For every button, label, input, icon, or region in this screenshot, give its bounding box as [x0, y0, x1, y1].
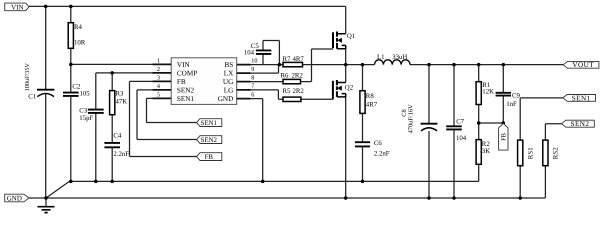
svg-text:BS: BS [225, 61, 234, 69]
svg-text:2R2: 2R2 [293, 88, 305, 95]
svg-text:47K: 47K [116, 98, 128, 105]
svg-text:3: 3 [157, 74, 160, 81]
svg-text:VIN: VIN [177, 61, 191, 69]
svg-text:LG: LG [224, 86, 234, 94]
svg-text:4R7: 4R7 [293, 56, 305, 63]
svg-text:15pF: 15pF [79, 115, 93, 122]
svg-text:C3: C3 [79, 108, 88, 115]
svg-text:9: 9 [251, 66, 254, 73]
svg-text:104: 104 [456, 135, 467, 142]
svg-text:SEN1: SEN1 [201, 120, 217, 127]
svg-text:8: 8 [251, 74, 254, 81]
svg-text:R2: R2 [482, 141, 491, 148]
svg-text:470uF/16V: 470uF/16V [407, 104, 414, 134]
svg-text:FB: FB [501, 133, 508, 141]
svg-text:2.2nF: 2.2nF [374, 151, 390, 158]
svg-text:Q2: Q2 [345, 85, 354, 92]
svg-text:RS1: RS1 [527, 147, 534, 159]
svg-text:C9: C9 [512, 92, 521, 99]
svg-text:1nF: 1nF [506, 101, 517, 108]
svg-text:L1: L1 [377, 54, 385, 61]
svg-text:R6: R6 [281, 72, 290, 79]
svg-text:LX: LX [224, 70, 234, 78]
svg-text:4R7: 4R7 [366, 101, 378, 108]
svg-text:2: 2 [157, 66, 160, 73]
svg-text:R7: R7 [283, 56, 292, 63]
svg-text:C2: C2 [72, 83, 81, 90]
svg-text:1: 1 [157, 57, 160, 64]
svg-text:33uH: 33uH [392, 54, 407, 61]
svg-text:7: 7 [251, 83, 254, 90]
svg-text:104: 104 [244, 50, 255, 57]
svg-text:2.2nF: 2.2nF [113, 151, 129, 158]
svg-text:105: 105 [80, 91, 91, 98]
svg-text:GND: GND [218, 95, 234, 103]
svg-text:C7: C7 [456, 118, 465, 125]
svg-text:6: 6 [251, 91, 254, 98]
svg-text:SEN2: SEN2 [177, 86, 195, 94]
svg-text:2R2: 2R2 [292, 72, 304, 79]
svg-text:RS2: RS2 [553, 147, 560, 159]
svg-text:SEN2: SEN2 [571, 120, 590, 128]
svg-text:C1: C1 [28, 93, 36, 100]
svg-text:C4: C4 [113, 133, 122, 140]
svg-text:SEN1: SEN1 [572, 94, 591, 102]
svg-text:10R: 10R [74, 39, 86, 46]
svg-text:UG: UG [223, 78, 233, 86]
svg-text:R4: R4 [74, 24, 83, 31]
svg-text:COMP: COMP [177, 69, 197, 77]
svg-text:12K: 12K [482, 89, 494, 96]
svg-text:R8: R8 [366, 93, 375, 100]
svg-text:C6: C6 [374, 140, 383, 147]
svg-text:R5: R5 [283, 88, 292, 95]
svg-text:Q1: Q1 [347, 33, 355, 40]
svg-text:VIN: VIN [11, 3, 23, 11]
svg-text:3K: 3K [482, 148, 490, 155]
svg-text:FB: FB [177, 78, 186, 86]
svg-text:5: 5 [157, 91, 160, 98]
svg-text:VOUT: VOUT [572, 61, 594, 69]
svg-text:4: 4 [157, 83, 160, 90]
svg-text:GND: GND [7, 195, 22, 203]
svg-text:10: 10 [251, 57, 257, 64]
svg-text:SEN2: SEN2 [201, 137, 218, 144]
svg-text:R3: R3 [116, 90, 125, 97]
svg-text:SEN1: SEN1 [177, 95, 195, 103]
svg-text:FB: FB [205, 154, 214, 161]
svg-text:100uF/35V: 100uF/35V [24, 63, 31, 92]
